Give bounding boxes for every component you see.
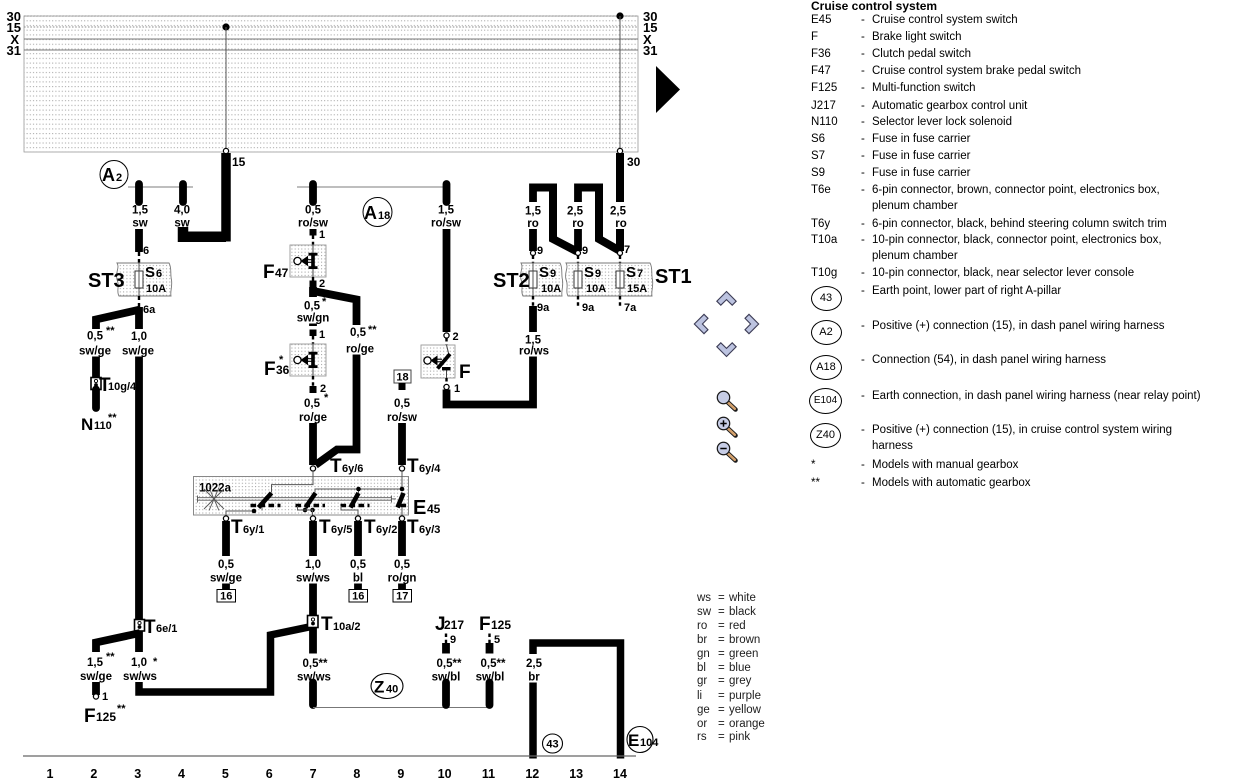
wire 2,5 br earth loop [526, 643, 621, 759]
label ST1 [655, 266, 692, 288]
wire 1,0 sw/ge main [122, 307, 154, 620]
connector T10a/2 [308, 614, 361, 635]
brake light switch F [421, 345, 455, 378]
wire 15 supply [183, 153, 246, 242]
wire colour code table [697, 592, 711, 604]
legend symbol Z40 [810, 423, 841, 448]
label F [459, 362, 471, 383]
legend symbol E104 [809, 388, 842, 414]
legend symbol 43 [811, 286, 842, 311]
rail labels right [643, 9, 657, 58]
wire 0,5 sw/ge to track 16 [210, 521, 242, 603]
F pin 1 [444, 378, 460, 395]
fuse S9 carrier ST2 [521, 263, 563, 296]
tap line from rail 30 [617, 16, 622, 154]
wire F to fuse S9 [447, 306, 550, 405]
node Z40 [371, 674, 403, 699]
F47 pin 2 [310, 277, 326, 290]
track numbers [47, 767, 627, 779]
label F36 [264, 354, 290, 380]
connector T6e/1 [135, 617, 178, 638]
switch F47 [290, 245, 326, 277]
E45 internal links [226, 470, 402, 516]
zoom out tool [717, 442, 735, 460]
pin T6y/3 [399, 516, 440, 538]
label ST3 [88, 270, 125, 292]
legend symbol A18 [810, 355, 842, 380]
F36 pin 2 [310, 376, 327, 395]
wire 0,5 ro/sw to T6y/4 [387, 398, 417, 465]
track reference 18 [394, 370, 411, 390]
label ST2 [493, 270, 530, 292]
connector T10g/4 [91, 375, 137, 396]
wire 2,5 ro middle with crossover hook [567, 184, 621, 252]
pin T6y/5 [310, 516, 352, 538]
junction dot on rail 15 [222, 23, 229, 30]
rail 15 [24, 26, 638, 28]
wire 0,5 sw/bl from F125 [476, 643, 506, 705]
wire 1,5 sw upper [132, 184, 149, 252]
rail labels left [7, 9, 21, 58]
earth point 43 [543, 734, 563, 753]
fuse S6 pin 6a [139, 296, 156, 316]
pin T6y/6 [310, 456, 363, 477]
nav arrow right [745, 314, 759, 333]
wire 0,5 bl to track 16 [349, 521, 368, 603]
wire N110 stub [92, 390, 100, 409]
fuse pins 9a 9a 7a [533, 296, 637, 314]
nav arrow down [717, 343, 736, 357]
E45 contact dots [356, 487, 404, 492]
wire 1,5 ro with crossover hook [525, 184, 577, 252]
F47 pin 1 [310, 229, 326, 245]
F36 pin 1 [310, 329, 326, 344]
wire 1,0 sw/ws to T10a/2 [296, 521, 330, 616]
cruise control switch E45 box [194, 477, 409, 516]
wire 1,0 sw/ws from T6e/1 [123, 627, 309, 692]
nav arrow up [717, 292, 736, 306]
fuse S6 pin 6 [139, 245, 149, 263]
wire branch 0,5 ro/ge (automatic) [313, 291, 377, 465]
F pin 2 [444, 331, 459, 345]
wire branch to N110 [79, 310, 140, 378]
zoom tool [717, 391, 735, 409]
rail 30 [24, 15, 638, 17]
legend title [811, 0, 937, 13]
power supply band [24, 16, 638, 152]
tap line from rail 15 [223, 27, 228, 154]
rail X [24, 38, 638, 40]
switch contact 4 [398, 493, 409, 508]
junction dot on rail 30 [616, 12, 623, 19]
pin T6y/1 [223, 516, 264, 538]
wire 0,5 sw/bl from J217 [432, 643, 462, 705]
earth rail [23, 755, 636, 757]
label E45 [413, 497, 441, 519]
wire 0,5 ro/gn to track 17 [388, 521, 417, 603]
control unit J217 [435, 614, 464, 646]
rail 31 [24, 49, 638, 51]
earth connection E104 [627, 727, 659, 753]
wire 0,5 ro/ge to T6y/6 [299, 392, 329, 465]
wire 1,5 ro/sw to F [431, 184, 461, 332]
lamp symbol 1022a [198, 488, 397, 511]
wire 4,0 sw [174, 184, 190, 240]
wire 2,5 ro from rail 30 [610, 153, 641, 251]
fuse carrier S9 S7 [566, 263, 653, 296]
nav arrow left [694, 314, 708, 333]
internal connection line A18 [297, 186, 447, 188]
connection Z40 line [313, 707, 490, 709]
wire 0,5 sw/ws to Z40 [297, 628, 331, 706]
internal connection line A2 [128, 186, 193, 188]
wire branch to F125 pin 1 [80, 633, 140, 703]
label F47 [263, 262, 289, 283]
switch F36 [290, 344, 326, 376]
switch contact 1 [251, 493, 281, 513]
pin T6y/2 [355, 516, 397, 538]
wire 0,5 sw/gn to F36 [297, 287, 330, 326]
page continuation arrow [656, 66, 680, 113]
wire 0,5 ro/sw to F47 [298, 184, 328, 230]
label F125 bottom left [84, 703, 126, 727]
fuse S6 carrier box [117, 263, 172, 296]
legend symbol A2 [811, 320, 842, 345]
solenoid N110 label [81, 412, 117, 434]
switch contact 2 [296, 493, 326, 512]
node A18 [363, 198, 392, 227]
multi-function switch F125 [479, 614, 511, 646]
pin T6y/4 [399, 456, 441, 477]
node A2 [100, 161, 128, 189]
fuse pins 9 9 7 [531, 244, 631, 263]
switch contact 3 [341, 493, 370, 508]
zoom in tool [717, 417, 735, 435]
